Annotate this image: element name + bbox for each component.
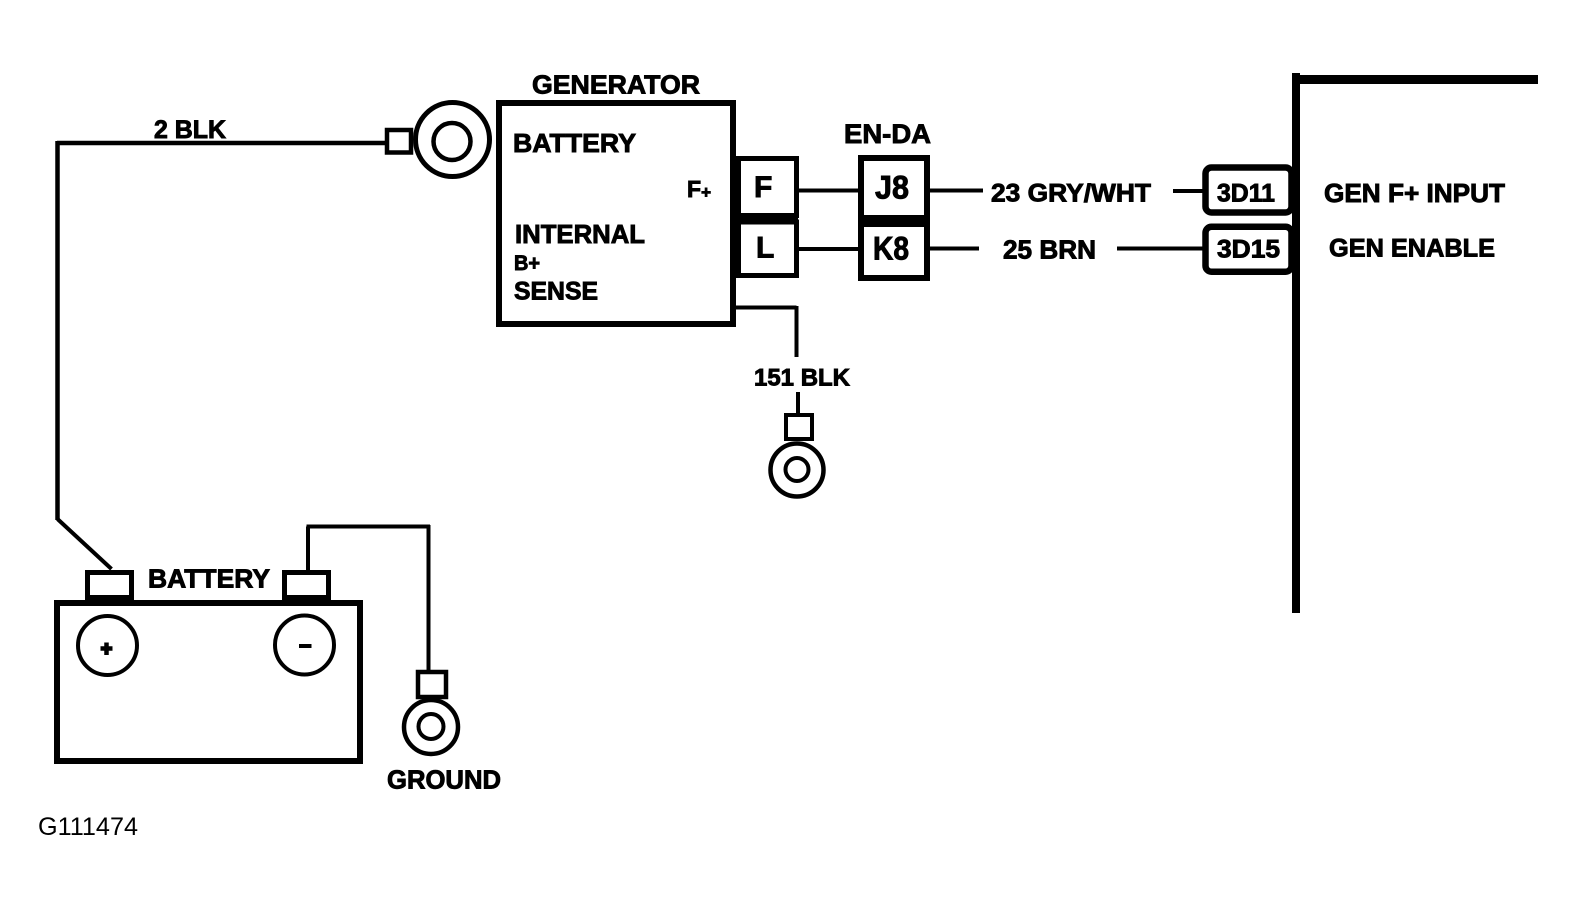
svg-text:EN-DA: EN-DA xyxy=(844,119,931,149)
svg-text:GENERATOR: GENERATOR xyxy=(532,70,700,100)
svg-text:151 BLK: 151 BLK xyxy=(754,365,851,392)
svg-text:23 GRY/WHT: 23 GRY/WHT xyxy=(991,180,1151,208)
svg-text:3D11: 3D11 xyxy=(1217,180,1275,208)
svg-text:GEN ENABLE: GEN ENABLE xyxy=(1329,235,1495,263)
svg-text:GEN F+ INPUT: GEN F+ INPUT xyxy=(1324,180,1505,208)
svg-text:K8: K8 xyxy=(873,231,909,267)
svg-text:INTERNAL: INTERNAL xyxy=(515,219,645,249)
svg-text:25 BRN: 25 BRN xyxy=(1003,235,1096,265)
svg-text:F: F xyxy=(754,171,772,204)
svg-text:BATTERY: BATTERY xyxy=(513,128,636,158)
svg-text:3D15: 3D15 xyxy=(1217,236,1280,264)
svg-text:BATTERY: BATTERY xyxy=(148,564,270,594)
svg-text:J8: J8 xyxy=(875,170,909,206)
svg-text:G111474: G111474 xyxy=(38,813,138,841)
svg-text:2 BLK: 2 BLK xyxy=(154,116,226,144)
svg-text:SENSE: SENSE xyxy=(514,278,598,306)
svg-text:L: L xyxy=(756,232,774,265)
svg-text:GROUND: GROUND xyxy=(387,765,501,795)
svg-text:B+: B+ xyxy=(514,252,540,275)
